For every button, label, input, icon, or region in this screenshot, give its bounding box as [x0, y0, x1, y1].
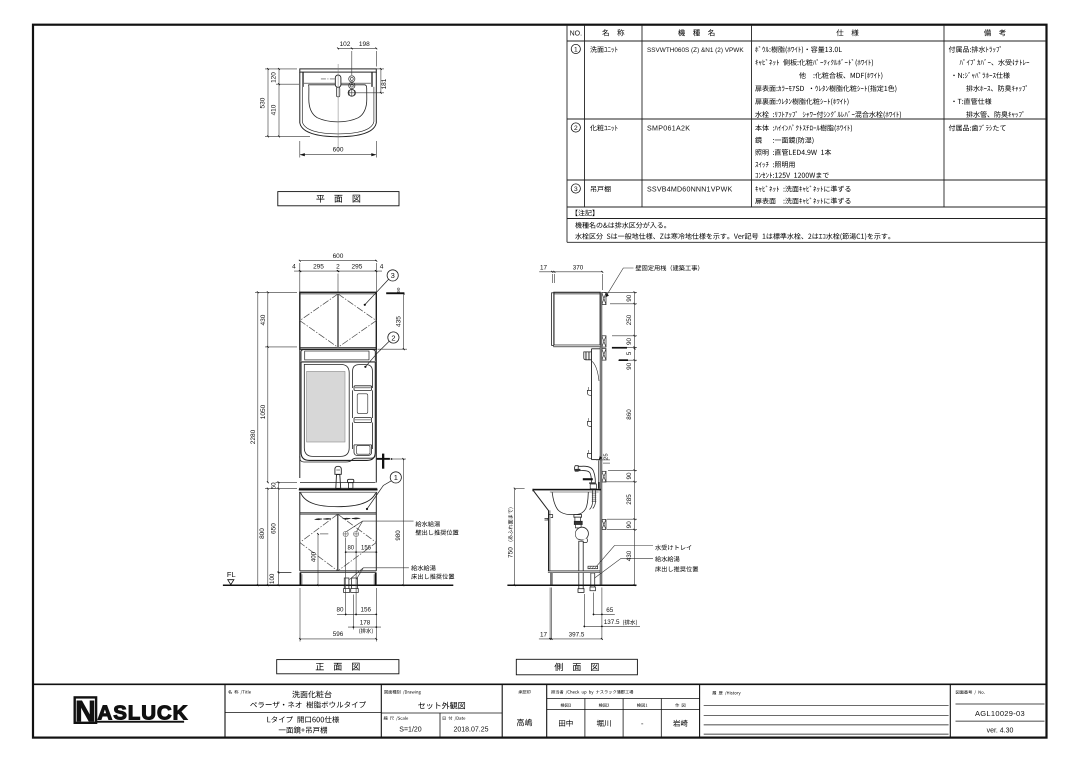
front kickboard: [300, 573, 375, 586]
check cell: [551, 690, 633, 695]
front lower door-swing diamond: [300, 514, 377, 571]
drawing cell: [384, 690, 420, 695]
svg-text:430: 430: [260, 314, 267, 325]
svg-text:156: 156: [361, 607, 372, 614]
svg-text:80: 80: [347, 546, 354, 552]
svg-text:400: 400: [310, 551, 317, 562]
side 25 mini dim: [596, 459, 610, 461]
svg-text:600: 600: [333, 253, 344, 260]
table row 1: sink unit: [571, 44, 580, 53]
side top cabinet profile: [552, 292, 601, 346]
front left dim chain: [257, 292, 259, 585]
svg-text:1: 1: [574, 46, 578, 53]
svg-text:90: 90: [396, 287, 402, 293]
svg-text:ver. 4.30: ver. 4.30: [987, 728, 1014, 735]
front top cabinet door-swing diamond: [300, 294, 377, 348]
side bottom dims: [549, 588, 551, 640]
svg-text:198: 198: [359, 41, 370, 48]
svg-text:397.5: 397.5: [569, 631, 585, 638]
side faucet hose: [590, 491, 597, 510]
svg-text:65: 65: [606, 607, 614, 614]
svg-text:FL: FL: [227, 570, 236, 579]
svg-text:3: 3: [574, 186, 578, 193]
svg-text:120: 120: [271, 72, 278, 83]
NASLUCK logo: [75, 696, 189, 728]
svg-text:SSVWTH060S (Z) &N1 (2) VPWK: SSVWTH060S (Z) &N1 (2) VPWK: [647, 47, 744, 54]
svg-text:181: 181: [381, 78, 388, 89]
side wall line: [599, 292, 601, 585]
front door handles: [315, 518, 360, 520]
svg-text:2: 2: [391, 333, 395, 342]
svg-text:370: 370: [573, 264, 584, 271]
svg-text:SMP061A2K: SMP061A2K: [647, 125, 690, 133]
front mirror glass: [307, 371, 345, 442]
side right dim chain: [634, 292, 636, 585]
svg-text:100: 100: [269, 573, 276, 584]
front mirror side shelf column: [353, 365, 373, 456]
front bottom dims 80/156/178/596: [345, 538, 347, 616]
side view label 側面図: [516, 659, 637, 675]
svg-text:250: 250: [626, 314, 633, 325]
svg-text:295: 295: [313, 263, 324, 270]
plan view sink outline: [300, 69, 377, 137]
plan dim 102/198 top: [338, 47, 376, 49]
front faucet: [335, 466, 354, 488]
front FL line: [223, 584, 453, 586]
side mirror unit profile: [584, 349, 600, 460]
approval cell: [518, 690, 530, 694]
svg-text:25: 25: [603, 453, 609, 459]
front towel bar cross: [382, 454, 384, 469]
svg-text:410: 410: [271, 104, 278, 115]
front top dims 600 and 4/295/2/295/4: [300, 260, 377, 262]
svg-text:80: 80: [336, 607, 344, 614]
front 100 leader arrow: [280, 571, 292, 573]
plan centerline dash: [321, 78, 335, 80]
svg-text:430: 430: [626, 550, 633, 561]
svg-text:4: 4: [292, 263, 296, 270]
side drip tray: [588, 566, 598, 569]
svg-text:3: 3: [391, 271, 395, 280]
front circled 2 with leader: [388, 332, 399, 343]
front circled 3 with leader: [387, 270, 398, 281]
svg-text:137.5: 137.5: [604, 619, 620, 626]
front view label 正面図: [277, 660, 399, 674]
svg-text:596: 596: [333, 631, 344, 638]
svg-text:1050: 1050: [260, 404, 267, 419]
svg-text:178: 178: [360, 619, 371, 626]
svg-text:530: 530: [260, 97, 267, 108]
table row 2: mirror unit: [571, 123, 580, 132]
svg-text:2: 2: [336, 263, 340, 270]
front circled 1 with leader: [390, 472, 401, 483]
svg-text:2280: 2280: [250, 429, 257, 444]
side floor supply pipe: [590, 573, 596, 591]
side wall battens (bowtie): [602, 293, 606, 305]
svg-text:90: 90: [626, 294, 633, 302]
title block grid: [33, 684, 1046, 737]
drawing no cell: [956, 690, 985, 694]
svg-text:156: 156: [361, 546, 372, 552]
svg-text:980: 980: [395, 530, 402, 541]
plan faucet lever: [335, 75, 341, 97]
front wall supply circles: [343, 531, 359, 536]
side cabinet bottom and kick: [548, 571, 600, 585]
svg-text:295: 295: [351, 263, 362, 270]
front bowl apron curve: [300, 492, 377, 571]
svg-text:AGL10029-03: AGL10029-03: [975, 709, 1025, 718]
svg-text:N: N: [75, 696, 96, 728]
svg-text:17: 17: [540, 631, 548, 638]
plan dim 530/120/410 left: [267, 69, 269, 136]
side top dim 17/370: [539, 271, 602, 273]
svg-text:S=1/20: S=1/20: [399, 727, 421, 734]
history cell: [712, 691, 740, 695]
title cell texts: [228, 690, 251, 694]
plan faucet holes: [348, 76, 356, 97]
front lower doors: [300, 514, 377, 572]
side mirror shelf trays: [587, 390, 591, 395]
plan dim 600 bottom: [300, 154, 376, 156]
table row 3: wall cabinet: [571, 184, 580, 193]
svg-text:750: 750: [508, 547, 515, 558]
side faucet profile (gooseneck): [575, 466, 597, 489]
plan vertical centerline: [337, 64, 339, 152]
side FL line: [507, 584, 636, 586]
spec table grid: [567, 25, 1046, 242]
svg-text:600: 600: [333, 147, 344, 154]
front wall-supply annotation: [416, 521, 440, 527]
svg-text:2018.07.25: 2018.07.25: [453, 727, 488, 734]
side floor-supply annotation: [655, 556, 679, 562]
front view top cabinet box: [300, 292, 377, 349]
svg-text:285: 285: [626, 494, 633, 505]
front right dims 435 / 90 batten / 980: [386, 292, 404, 294]
side wall batten annotation: [636, 265, 700, 271]
svg-text:2: 2: [574, 125, 578, 132]
side drain trap: [574, 515, 588, 593]
svg-text:90: 90: [626, 521, 633, 529]
svg-text:50: 50: [271, 482, 278, 489]
svg-text:650: 650: [271, 523, 278, 534]
svg-text:435: 435: [396, 316, 403, 327]
plan view label 平面図: [278, 192, 399, 206]
svg-text:90: 90: [626, 472, 633, 480]
plan dim 181 right: [380, 69, 382, 93]
svg-text:4: 4: [380, 263, 384, 270]
svg-text:102: 102: [340, 41, 351, 48]
front backguard and counter: [299, 483, 378, 493]
side backsplash pipe cover: [598, 482, 600, 489]
front mirror cabinet body: [301, 362, 375, 461]
svg-text:5: 5: [626, 351, 633, 355]
svg-text:800: 800: [259, 528, 266, 539]
side 750 dim: [514, 489, 516, 586]
front floor supply pipes: [344, 578, 359, 592]
table notes: [576, 210, 595, 217]
svg-text:1: 1: [394, 473, 398, 482]
side tray annotation: [655, 545, 691, 551]
svg-text:NO.: NO.: [570, 31, 583, 38]
svg-text:SSVB4MD60NNN1VPWK: SSVB4MD60NNN1VPWK: [647, 186, 732, 194]
svg-text:90: 90: [626, 338, 633, 346]
svg-text:90: 90: [626, 362, 633, 370]
svg-text:17: 17: [540, 264, 548, 271]
side counter and bowl section: [533, 489, 601, 571]
front floor-supply annotation: [411, 565, 435, 571]
front 400 dim: [317, 534, 319, 585]
svg-text:860: 860: [626, 409, 633, 420]
front lamp shade: [301, 350, 375, 361]
front under-mirror area sides: [300, 350, 377, 483]
